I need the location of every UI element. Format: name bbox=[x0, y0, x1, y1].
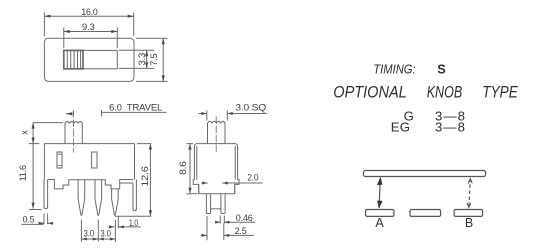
svg-text:TYPE: TYPE bbox=[482, 84, 518, 102]
svg-text:7.5: 7.5 bbox=[149, 53, 159, 66]
svg-text:x: x bbox=[20, 130, 30, 135]
svg-text:3.3: 3.3 bbox=[137, 53, 147, 66]
svg-text:12.6: 12.6 bbox=[140, 166, 150, 187]
svg-text:9.3: 9.3 bbox=[82, 22, 95, 32]
svg-text:3.0 SQ: 3.0 SQ bbox=[235, 103, 266, 113]
svg-text:2.5: 2.5 bbox=[235, 226, 247, 236]
svg-text:S: S bbox=[437, 63, 445, 77]
svg-text:OPTIONAL: OPTIONAL bbox=[333, 84, 406, 102]
svg-text:B: B bbox=[465, 216, 473, 230]
svg-text:3.0: 3.0 bbox=[100, 229, 111, 239]
svg-text:KNOB: KNOB bbox=[427, 84, 463, 102]
svg-text:11.6: 11.6 bbox=[18, 165, 28, 181]
svg-text:6.0 TRAVEL: 6.0 TRAVEL bbox=[109, 103, 162, 113]
svg-text:TIMING:: TIMING: bbox=[373, 62, 415, 76]
svg-text:0.46: 0.46 bbox=[236, 213, 253, 223]
svg-text:8.6: 8.6 bbox=[178, 161, 188, 175]
svg-text:3.0: 3.0 bbox=[84, 229, 95, 239]
svg-text:2.0: 2.0 bbox=[247, 172, 258, 182]
svg-text:0.5: 0.5 bbox=[23, 215, 35, 225]
svg-text:3—8: 3—8 bbox=[435, 120, 465, 135]
svg-text:16.0: 16.0 bbox=[81, 7, 97, 17]
svg-text:EG: EG bbox=[391, 120, 410, 135]
svg-text:1.0: 1.0 bbox=[129, 218, 138, 228]
svg-text:A: A bbox=[375, 216, 384, 230]
